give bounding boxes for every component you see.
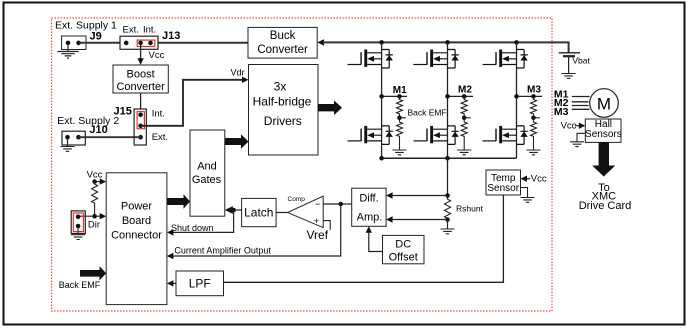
wire phase node M1 bbox=[382, 95, 407, 97]
resistor divider phase 2 top bbox=[462, 94, 467, 99]
arrow And Gates to drivers (thick) bbox=[225, 134, 249, 149]
ground (temp) bbox=[521, 198, 535, 203]
svg-text:J10: J10 bbox=[89, 124, 107, 136]
svg-text:Vbat: Vbat bbox=[572, 56, 590, 66]
wire shutdown to connector bbox=[172, 210, 234, 232]
svg-text:Int.: Int. bbox=[143, 24, 156, 35]
wire shunt bottom to Diff Amp bbox=[392, 219, 448, 221]
wire LPF to connector bbox=[173, 282, 177, 284]
jumper highlight Dir (red) bbox=[73, 213, 83, 232]
node rail M3 bbox=[514, 40, 519, 45]
node rail M1 bbox=[379, 40, 384, 45]
connector J10 bbox=[62, 131, 85, 145]
svg-text:Converter: Converter bbox=[257, 44, 308, 56]
J13 pin 2 bbox=[138, 41, 143, 46]
block Buck Converter bbox=[248, 27, 317, 58]
svg-text:−: − bbox=[315, 199, 320, 209]
J10 pin 2 bbox=[76, 135, 81, 140]
svg-text:Diff.: Diff. bbox=[359, 192, 378, 204]
block Latch bbox=[242, 198, 277, 226]
svg-text:Latch: Latch bbox=[244, 205, 273, 219]
wire Boost to J15 bbox=[140, 93, 142, 109]
resistor divider phase 1 top bbox=[397, 94, 402, 99]
svg-text:Vcc: Vcc bbox=[561, 121, 577, 132]
svg-text:3x: 3x bbox=[274, 79, 287, 93]
arrow drivers to bridge (thick) bbox=[318, 100, 342, 115]
wire bottom rail of bridge bbox=[382, 157, 517, 159]
wire Vcc into connector bbox=[95, 181, 101, 183]
svg-text:Vcc: Vcc bbox=[531, 174, 547, 185]
wire comparator plus input to Vref bbox=[323, 221, 330, 230]
wire DC offset to diff amp bbox=[369, 231, 383, 252]
block Diff. Amp. bbox=[352, 188, 386, 226]
wire comparator output to latch bbox=[276, 212, 287, 214]
svg-text:Vref: Vref bbox=[307, 228, 329, 242]
op-amp comparator bbox=[288, 196, 324, 228]
motor M bbox=[590, 89, 619, 118]
svg-text:M: M bbox=[597, 95, 611, 114]
wire Vcc to temp sensor bbox=[526, 178, 530, 180]
power board boundary (red dotted) bbox=[52, 18, 553, 311]
J15 pin 3 bbox=[138, 135, 143, 140]
node bottom rail leg1 bbox=[379, 156, 384, 161]
wire Dir into connector bbox=[78, 215, 100, 217]
transistor Q6 (low side phase 3) bbox=[483, 126, 528, 145]
block 3x Half-bridge Drivers bbox=[249, 65, 319, 156]
wire J15 pin2 to drivers (Vdr) bbox=[141, 80, 242, 126]
node Back EMF tap 1 bbox=[397, 116, 402, 121]
node rail M2 bbox=[445, 40, 450, 45]
wire shunt to ground bbox=[447, 220, 449, 230]
wire current amplifier output bbox=[172, 204, 341, 256]
svg-text:Current Amplifier Output: Current Amplifier Output bbox=[174, 246, 271, 256]
svg-text:LPF: LPF bbox=[189, 276, 211, 290]
arrow hall sensors to XMC (thick) bbox=[592, 142, 615, 176]
transistor Q5 (high side phase 3) bbox=[483, 50, 528, 69]
resistor divider phase 2 bottom bbox=[461, 118, 467, 150]
ground (Vbat) bbox=[562, 74, 576, 79]
ground (Dir) bbox=[71, 235, 85, 240]
wire phase node M3 bbox=[517, 95, 543, 97]
svg-text:Shut down: Shut down bbox=[171, 223, 214, 233]
wire J9 to J13 bbox=[79, 42, 120, 44]
svg-text:DC: DC bbox=[395, 238, 411, 250]
connector J13 bbox=[120, 36, 158, 49]
battery Vbat bbox=[559, 52, 580, 54]
block Boost Converter bbox=[113, 65, 168, 93]
transistor Q2 (low side phase 1) bbox=[348, 126, 393, 145]
block Power Board Connector bbox=[106, 173, 167, 305]
svg-text:Back EMF: Back EMF bbox=[59, 280, 101, 290]
block Temp Sensor bbox=[486, 170, 521, 195]
resistor Rshunt bbox=[445, 196, 451, 220]
transistor Q1 (high side phase 1) bbox=[348, 50, 393, 69]
transistor Q3 (high side phase 2) bbox=[414, 50, 459, 69]
svg-text:+: + bbox=[314, 216, 319, 226]
svg-text:Vdr: Vdr bbox=[231, 68, 245, 78]
svg-text:Ext.: Ext. bbox=[123, 24, 139, 35]
block Hall Sensors bbox=[585, 119, 621, 142]
svg-text:Ext. Supply 2: Ext. Supply 2 bbox=[57, 115, 119, 127]
block DC Offset bbox=[383, 235, 425, 263]
wire to comparator minus input bbox=[323, 203, 341, 205]
svg-text:Half-bridge: Half-bridge bbox=[253, 94, 312, 108]
wire J10 to J15 bbox=[79, 136, 141, 138]
svg-text:Gates: Gates bbox=[192, 174, 222, 186]
svg-text:M3: M3 bbox=[554, 106, 569, 118]
jumper highlight J15 (red) bbox=[137, 112, 144, 129]
svg-text:Drivers: Drivers bbox=[264, 114, 302, 128]
svg-text:Drive Card: Drive Card bbox=[579, 200, 632, 212]
svg-text:Ext. Supply 1: Ext. Supply 1 bbox=[55, 20, 117, 32]
J15 pin 2 bbox=[138, 124, 143, 129]
svg-text:M2: M2 bbox=[458, 84, 472, 95]
jumper highlight J13 (red) bbox=[137, 40, 155, 46]
J9 pin 2 bbox=[76, 41, 81, 46]
wire bridge to shunt bbox=[447, 158, 449, 195]
node bottom rail leg2 bbox=[445, 156, 450, 161]
wire battery to ground bbox=[568, 57, 570, 74]
connector Dir jumper bbox=[71, 211, 85, 234]
ground (divider 2) bbox=[457, 150, 471, 155]
wire J13 pin2 down to Boost (Vcc) bbox=[140, 43, 142, 59]
svg-text:Board: Board bbox=[122, 215, 151, 227]
svg-text:And: And bbox=[197, 161, 217, 173]
wire diff amp output bbox=[341, 203, 352, 205]
node Dir bbox=[92, 214, 97, 219]
connector J9 bbox=[62, 36, 86, 50]
J13 pin 3 bbox=[148, 41, 153, 46]
ground (shunt) bbox=[441, 229, 455, 234]
node Vcc bbox=[92, 179, 97, 184]
J15 pin 1 bbox=[138, 113, 143, 118]
wire top rail bbox=[323, 42, 569, 52]
block LPF bbox=[176, 271, 224, 296]
ground (hall) bbox=[570, 142, 584, 147]
node shunt top bbox=[445, 193, 450, 198]
svg-text:Buck: Buck bbox=[270, 30, 296, 42]
J9 pin 1 bbox=[66, 41, 71, 46]
wire temp sensor to LPF bbox=[224, 195, 504, 282]
wire phase node M2 bbox=[448, 95, 474, 97]
block And Gates bbox=[190, 130, 225, 216]
wire latch to And Gates (shutdown) bbox=[233, 209, 242, 211]
svg-text:Int.: Int. bbox=[152, 108, 165, 119]
Dir pin 1 bbox=[76, 214, 81, 219]
wire bridge leg 1 bbox=[381, 42, 383, 158]
resistor divider phase 1 bottom bbox=[397, 118, 403, 150]
wire temp sensor to ground bbox=[521, 188, 528, 198]
wire bridge leg 3 bbox=[516, 42, 518, 158]
wires motor phases bbox=[572, 97, 590, 110]
svg-text:Boost: Boost bbox=[127, 68, 155, 80]
node shutdown bbox=[231, 208, 236, 213]
svg-text:Power: Power bbox=[121, 200, 153, 212]
Dir pin 2 bbox=[76, 224, 81, 229]
svg-text:Comp: Comp bbox=[288, 196, 306, 203]
wire Dir pin2 to ground bbox=[77, 226, 79, 235]
wire rail to Buck (arrow into right edge) bbox=[317, 39, 324, 45]
node tap 2 bbox=[462, 116, 467, 121]
svg-text:Rshunt: Rshunt bbox=[456, 204, 484, 214]
ground (J10) bbox=[67, 137, 69, 146]
J13 pin 1 bbox=[124, 41, 129, 46]
ground (divider 1) bbox=[393, 150, 407, 155]
arrow connector to And Gates (thick) bbox=[167, 194, 190, 209]
node current sense bbox=[338, 202, 343, 207]
svg-text:J13: J13 bbox=[162, 30, 180, 42]
svg-text:Ext.: Ext. bbox=[152, 132, 168, 143]
resistor divider phase 3 top bbox=[531, 94, 536, 99]
resistor (pull-up) bbox=[92, 182, 98, 217]
svg-text:Offset: Offset bbox=[389, 251, 418, 263]
wire J13 to Buck Converter bbox=[158, 42, 248, 44]
svg-text:Connector: Connector bbox=[111, 230, 162, 242]
wire Vcc to Hall Sensors bbox=[575, 125, 579, 127]
ground (J9) bbox=[67, 43, 69, 52]
resistor divider phase 3 bottom bbox=[531, 118, 537, 150]
transistor Q4 (low side phase 2) bbox=[414, 126, 459, 145]
ground (divider 3) bbox=[527, 150, 541, 155]
svg-text:Vcc: Vcc bbox=[149, 50, 165, 61]
J10 pin 1 bbox=[65, 135, 70, 140]
wire shunt top to Diff Amp bbox=[392, 195, 448, 197]
wire hall to ground bbox=[577, 133, 585, 142]
svg-text:M3: M3 bbox=[527, 84, 541, 95]
svg-text:Sensors: Sensors bbox=[585, 129, 622, 140]
svg-text:J9: J9 bbox=[90, 31, 102, 43]
node tap 3 bbox=[531, 116, 536, 121]
svg-text:Dir: Dir bbox=[88, 220, 100, 231]
node shunt bottom bbox=[445, 217, 450, 222]
connector J15 bbox=[134, 109, 146, 145]
wire bridge leg 2 bbox=[447, 42, 449, 158]
svg-text:Sensor: Sensor bbox=[487, 183, 519, 194]
svg-text:Amp.: Amp. bbox=[357, 212, 383, 224]
svg-text:Converter: Converter bbox=[116, 81, 165, 93]
svg-text:Back EMF: Back EMF bbox=[408, 108, 447, 118]
arrow Back EMF into connector (thick) bbox=[80, 266, 106, 280]
